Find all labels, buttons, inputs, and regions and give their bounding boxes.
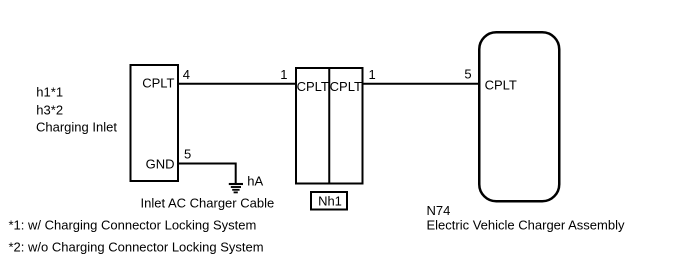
svg-text:CPLT: CPLT (330, 79, 362, 94)
svg-text:Electric Vehicle Charger Assem: Electric Vehicle Charger Assembly (427, 218, 625, 233)
svg-text:Charging Inlet: Charging Inlet (36, 120, 117, 135)
svg-text:CPLT: CPLT (485, 78, 517, 93)
svg-text:1: 1 (369, 67, 376, 82)
svg-text:5: 5 (464, 67, 471, 82)
charging inlet connector box (131, 65, 179, 181)
svg-text:Inlet AC Charger Cable: Inlet AC Charger Cable (141, 195, 275, 210)
svg-text:hA: hA (247, 174, 263, 189)
electric vehicle charger assembly box N74 (479, 32, 559, 201)
wire GND to ground (179, 164, 236, 184)
svg-text:h3*2: h3*2 (36, 103, 63, 118)
ground symbol hA (229, 184, 243, 192)
svg-text:CPLT: CPLT (142, 76, 174, 91)
svg-text:h1*1: h1*1 (36, 85, 63, 100)
connector Nh1 box (296, 68, 363, 184)
svg-text:*2: w/o Charging Connector Loc: *2: w/o Charging Connector Locking Syste… (9, 240, 264, 255)
svg-text:CPLT: CPLT (297, 79, 329, 94)
connector Nh1 divider (328, 67, 330, 184)
wire Nh1 to charger assembly (362, 83, 479, 85)
svg-text:Nh1: Nh1 (318, 194, 342, 209)
svg-text:*1: w/ Charging Connector Lock: *1: w/ Charging Connector Locking System (9, 218, 257, 233)
svg-text:1: 1 (280, 67, 287, 82)
svg-text:4: 4 (183, 67, 190, 82)
svg-text:N74: N74 (427, 203, 451, 218)
wire CPLT inlet to Nh1 (179, 83, 296, 85)
svg-text:5: 5 (184, 147, 191, 162)
connector designator box Nh1 (311, 192, 347, 210)
svg-text:GND: GND (146, 156, 175, 171)
